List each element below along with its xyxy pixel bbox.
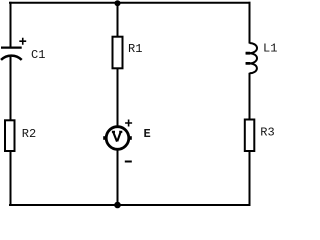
resistor R1 [113,37,123,69]
label R1 [128,42,142,56]
junction node top [115,0,121,6]
resistor R2 [5,120,15,151]
label C1 [31,48,45,62]
wire right mid [249,73,251,120]
wire top [9,2,251,4]
wire left bottom [10,151,12,205]
wire right upper [249,2,251,44]
wire bottom [9,204,251,206]
wire middle upper [117,3,119,38]
wire right bottom [249,151,251,207]
label R3 [260,126,274,140]
source E [103,120,132,162]
wire middle mid [117,68,119,126]
wire left lower [10,57,12,121]
svg-text:E: E [144,127,151,141]
svg-text:L1: L1 [263,41,277,55]
label L1 [263,41,277,55]
resistor R3 [245,120,255,152]
label E [144,127,151,141]
svg-text:R2: R2 [22,127,36,141]
wire middle lower [117,150,119,205]
capacitor C1 [1,38,26,60]
svg-text:C1: C1 [31,48,45,62]
wire left upper [10,2,12,48]
svg-text:R1: R1 [128,42,142,56]
inductor L1 [246,43,257,73]
junction node bottom [114,202,121,209]
label R2 [22,127,36,141]
svg-text:R3: R3 [260,126,274,140]
